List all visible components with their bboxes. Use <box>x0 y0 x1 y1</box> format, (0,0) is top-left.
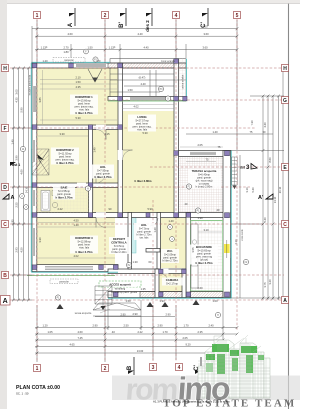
kitchen inner <box>195 222 197 240</box>
gridline H horizontal <box>10 67 284 69</box>
hol small wall <box>146 249 160 253</box>
camara right wall <box>182 269 186 298</box>
section markers <box>3 8 273 375</box>
svg-text:3.75: 3.75 <box>263 282 267 288</box>
svg-text:3.30: 3.30 <box>59 132 65 136</box>
svg-text:4.40: 4.40 <box>137 32 143 36</box>
living right wall <box>174 59 179 218</box>
svg-text:3.60: 3.60 <box>203 32 209 36</box>
svg-text:A: A <box>283 298 287 304</box>
svg-text:2.90: 2.90 <box>157 324 163 328</box>
svg-text:4.50: 4.50 <box>73 219 79 223</box>
gridline D horizontal <box>10 186 250 188</box>
svg-text:5.90: 5.90 <box>147 207 153 211</box>
svg-text:9.20: 9.20 <box>185 343 191 347</box>
svg-text:3: 3 <box>152 365 155 371</box>
gridline 4 vertical <box>175 19 177 361</box>
svg-text:1: 1 <box>36 366 39 372</box>
section B' top <box>119 8 126 28</box>
svg-text:terasa acoperita: terasa acoperita <box>75 312 92 315</box>
svg-text:1.40: 1.40 <box>212 130 218 134</box>
svg-text:5.30: 5.30 <box>75 116 81 120</box>
svg-text:5.90: 5.90 <box>20 107 24 113</box>
svg-text:5: 5 <box>236 13 239 19</box>
svg-text:3.30: 3.30 <box>38 237 42 243</box>
svg-text:1.70: 1.70 <box>183 324 189 328</box>
dorm1 bottom wall <box>32 125 122 130</box>
svg-text:1: 1 <box>36 13 39 19</box>
gridline E horizontal <box>150 166 284 168</box>
svg-text:DORMITOR 3: DORMITOR 3 <box>75 236 93 240</box>
kitchen left wall <box>186 213 191 298</box>
svg-text:1.20: 1.20 <box>42 324 48 328</box>
left A marker <box>3 194 15 201</box>
svg-text:1.20: 1.20 <box>153 227 157 233</box>
svg-text:F: F <box>3 126 6 132</box>
cyan shaft <box>132 215 137 253</box>
dorm1 inner dims <box>40 79 117 81</box>
svg-text:B': B' <box>119 22 125 28</box>
svg-text:PLAN COTA ±0.00: PLAN COTA ±0.00 <box>16 385 60 391</box>
svg-text:14.10: 14.10 <box>25 186 29 193</box>
svg-text:incalzire pardoseala: incalzire pardoseala <box>29 74 32 95</box>
room label white boxes <box>51 95 221 288</box>
svg-text:W.C.: W.C. <box>167 249 173 253</box>
svg-text:1.20: 1.20 <box>42 59 48 63</box>
svg-text:1.50: 1.50 <box>75 80 81 84</box>
svg-text:2.90: 2.90 <box>165 313 171 317</box>
svg-text:4.40: 4.40 <box>143 46 149 50</box>
parasolar labels <box>53 58 85 63</box>
doors <box>96 125 106 130</box>
svg-text:h liber 2.70m: h liber 2.70m <box>94 175 112 179</box>
bottom cyan <box>108 297 231 299</box>
cyan insulation edges <box>31 62 231 298</box>
svg-text:2.22: 2.22 <box>137 330 143 334</box>
svg-text:H: H <box>283 66 287 72</box>
svg-text:1.12P: 1.12P <box>109 46 116 50</box>
room fill DORMITOR 3 <box>37 217 115 265</box>
section A top <box>68 8 75 27</box>
left wall <box>32 63 37 272</box>
svg-text:4.60: 4.60 <box>20 169 24 175</box>
svg-text:.40: .40 <box>111 330 115 334</box>
svg-text:zona veranda: zona veranda <box>161 60 176 63</box>
svg-text:4: 4 <box>175 13 178 19</box>
roof overhang triangles bottom <box>57 300 200 309</box>
left wall window 4 dorm3 <box>32 228 36 256</box>
svg-text:tav. fals: tav. fals <box>140 236 149 240</box>
left wall window 1 <box>32 86 36 112</box>
gridline 1 vertical <box>36 19 38 362</box>
svg-text:CAMARA: CAMARA <box>166 278 178 282</box>
svg-text:4.65: 4.65 <box>69 343 75 347</box>
svg-text:A: A <box>3 298 8 305</box>
svg-text:13.00: 13.00 <box>137 349 144 353</box>
right dimension chains <box>231 68 284 300</box>
svg-text:3.20: 3.20 <box>268 279 272 285</box>
left dst marker <box>10 162 20 167</box>
svg-text:A: A <box>68 22 74 27</box>
svg-text:HOL: HOL <box>141 223 147 227</box>
svg-text:7.30: 7.30 <box>250 120 254 126</box>
entrance canopy bottom <box>93 303 141 316</box>
gridline F horizontal <box>10 127 255 129</box>
grid bubbles top <box>34 12 241 20</box>
svg-text:2.90: 2.90 <box>132 312 138 316</box>
svg-text:2.35: 2.35 <box>197 330 203 334</box>
dorm3 bottom wall <box>32 265 118 272</box>
wc wall <box>157 213 161 270</box>
right A' marker <box>258 194 273 201</box>
svg-text:A1.3 PLANUL Anexa 1 (Plan part: A1.3 PLANUL Anexa 1 (Plan parter) de la … <box>153 400 230 404</box>
svg-text:C: C <box>3 222 7 228</box>
svg-text:h liber 2.70m: h liber 2.70m <box>75 250 93 254</box>
dorm3 bottom cyan <box>31 271 118 273</box>
left cyan <box>30 63 32 272</box>
svg-text:3.85: 3.85 <box>38 97 42 103</box>
svg-text:2.90: 2.90 <box>92 324 98 328</box>
watermark band <box>112 376 300 401</box>
grid bubbles left <box>1 65 11 306</box>
dorm3 inner <box>38 222 115 224</box>
svg-text:(6.47): (6.47) <box>139 76 146 80</box>
svg-text:4.02: 4.02 <box>73 254 79 258</box>
svg-text:1.40: 1.40 <box>93 147 97 153</box>
svg-text:4.40: 4.40 <box>263 122 267 128</box>
room fill DORMITOR 1 <box>37 67 118 127</box>
gridlines group <box>10 19 284 362</box>
svg-text:4.60: 4.60 <box>77 330 83 334</box>
svg-text:1.93: 1.93 <box>159 299 165 303</box>
svg-text:S=4.43mp pard. gresie: S=4.43mp pard. gresie <box>111 290 138 294</box>
entrance steps bottom left <box>95 286 112 310</box>
interior dimension lines <box>37 59 273 298</box>
svg-text:3.10: 3.10 <box>245 187 249 193</box>
svg-text:5.40: 5.40 <box>263 217 267 223</box>
svg-text:1.30: 1.30 <box>132 260 138 264</box>
svg-text:2.22: 2.22 <box>57 207 63 211</box>
green highlight edges <box>27 101 223 291</box>
left scan margin <box>0 0 7 409</box>
svg-text:h liber 2.80m: h liber 2.80m <box>134 179 152 183</box>
svg-text:BAIE: BAIE <box>61 186 68 190</box>
svg-text:2.70: 2.70 <box>63 46 69 50</box>
dorm right wall <box>89 125 93 218</box>
living inner dims <box>122 104 174 106</box>
svg-text:14.10: 14.10 <box>273 196 277 203</box>
gridline 3 vertical <box>152 200 154 361</box>
svg-text:3.60: 3.60 <box>202 46 208 50</box>
svg-text:+tav. fals: +tav. fals <box>79 246 90 250</box>
section 2 top <box>145 8 152 32</box>
svg-text:2.50: 2.50 <box>123 324 129 328</box>
svg-text:h liber 2.40m: h liber 2.40m <box>112 250 127 254</box>
upper terrace inner dims <box>110 73 174 75</box>
top wall window dorm1 <box>76 64 106 68</box>
room fill LIVING <box>122 111 174 213</box>
svg-text:1.15: 1.15 <box>104 132 110 136</box>
svg-text:parasolar: parasolar <box>59 281 69 284</box>
svg-text:des 2: des 2 <box>145 20 150 32</box>
svg-text:C': C' <box>201 22 207 28</box>
bottom wall <box>108 292 231 298</box>
romimo watermark text <box>125 371 232 407</box>
walls <box>32 59 231 298</box>
upper terrace outline <box>110 59 186 97</box>
svg-text:8.60: 8.60 <box>268 157 272 163</box>
svg-text:H: H <box>3 66 7 72</box>
svg-text:SC. 1 : 50: SC. 1 : 50 <box>16 392 29 396</box>
kitchen/terrace right wall <box>223 151 231 298</box>
svg-text:DORMITOR 1: DORMITOR 1 <box>75 95 93 99</box>
svg-text:4.40: 4.40 <box>140 82 146 86</box>
svg-text:1.50: 1.50 <box>127 88 133 92</box>
svg-text:1.70: 1.70 <box>162 330 168 334</box>
svg-text:2.05: 2.05 <box>197 143 203 147</box>
svg-text:S=2.17mp: S=2.17mp <box>166 282 178 286</box>
svg-text:1.40: 1.40 <box>73 223 79 227</box>
svg-text:1.05: 1.05 <box>47 330 53 334</box>
svg-text:1.40: 1.40 <box>11 139 15 145</box>
svg-text:h liber 2.70m: h liber 2.70m <box>56 161 74 165</box>
living top wall <box>108 97 186 101</box>
svg-text:1.00: 1.00 <box>212 299 218 303</box>
room fill BAIE <box>37 188 89 213</box>
living top windows <box>130 97 170 100</box>
gridline G horizontal <box>108 99 284 101</box>
svg-text:HOL: HOL <box>100 165 106 169</box>
svg-text:2: 2 <box>104 366 107 372</box>
svg-text:1.12P: 1.12P <box>41 46 48 50</box>
svg-text:parasolar: parasolar <box>64 59 74 62</box>
svg-text:+tav. fals: +tav. fals <box>137 128 148 132</box>
terrace top wall <box>174 151 231 157</box>
svg-text:3.55: 3.55 <box>191 247 195 253</box>
svg-text:3.05: 3.05 <box>15 89 19 95</box>
svg-text:5.30: 5.30 <box>142 131 148 135</box>
top cyan <box>31 61 110 63</box>
terrace top window <box>190 151 216 156</box>
top wall band <box>32 63 186 68</box>
room fills <box>37 67 186 292</box>
svg-text:5.40: 5.40 <box>251 187 255 193</box>
section B bottom <box>127 357 134 375</box>
svg-text:2: 2 <box>104 13 107 19</box>
camara left wall <box>155 269 159 298</box>
bucatarie tiles <box>190 220 223 291</box>
svg-text:4.60: 4.60 <box>67 32 73 36</box>
svg-text:4.02: 4.02 <box>133 105 139 109</box>
svg-text:CENTRALA: CENTRALA <box>111 241 126 245</box>
svg-text:2.10: 2.10 <box>75 76 81 80</box>
dorm2/baie wall <box>32 183 122 188</box>
svg-text:7.45: 7.45 <box>77 336 83 340</box>
stairs <box>32 149 49 175</box>
grid bubbles bottom <box>34 364 183 373</box>
svg-text:carton asfaltat: carton asfaltat <box>182 74 185 89</box>
room fill DORMITOR 2 <box>37 130 89 183</box>
kitchen right window <box>224 240 231 258</box>
svg-text:1.50: 1.50 <box>125 299 131 303</box>
room labels <box>50 58 244 295</box>
green buildings logo <box>198 335 270 398</box>
svg-text:3.90: 3.90 <box>15 155 19 161</box>
svg-text:2.40: 2.40 <box>208 324 214 328</box>
svg-text:2.05: 2.05 <box>182 336 188 340</box>
gridline C horizontal <box>10 223 284 225</box>
svg-text:1.50: 1.50 <box>87 46 93 50</box>
terasa acoperita hatch <box>178 157 223 215</box>
svg-text:dst 1: dst 1 <box>12 163 20 167</box>
depozit right wall <box>128 213 132 270</box>
svg-text:h liber 2.70m: h liber 2.70m <box>195 261 213 265</box>
svg-text:A: A <box>11 195 15 201</box>
exterior steps right of terrace <box>232 157 237 189</box>
svg-text:2.93: 2.93 <box>15 247 19 253</box>
living bottom wall <box>32 213 231 218</box>
top dimension chains <box>32 20 237 150</box>
svg-text:1.35: 1.35 <box>140 287 146 291</box>
svg-text:1.40: 1.40 <box>168 219 174 223</box>
baie fixtures <box>41 191 50 212</box>
svg-text:4.50: 4.50 <box>20 247 24 253</box>
svg-text:h liber 2.70m: h liber 2.70m <box>163 259 178 263</box>
svg-text:4.35: 4.35 <box>75 85 81 89</box>
terrace inner <box>180 146 223 148</box>
bottom dimension chains <box>35 300 237 362</box>
svg-text:zona verde: zona verde <box>241 229 244 241</box>
svg-text:20.10: 20.10 <box>278 186 282 193</box>
svg-text:DORMITOR 2: DORMITOR 2 <box>56 148 74 152</box>
left wall window 2 <box>32 140 36 162</box>
svg-text:BUCATARIE: BUCATARIE <box>196 245 212 249</box>
svg-text:3.30: 3.30 <box>38 157 42 163</box>
svg-text:D: D <box>3 185 7 191</box>
windows <box>32 64 230 271</box>
right cyan <box>230 151 232 299</box>
hol right / living left wall <box>118 63 123 218</box>
svg-text:ACCES acoperit: ACCES acoperit <box>109 283 131 287</box>
svg-text:h liber 2.70m: h liber 2.70m <box>55 196 73 200</box>
circle markers <box>20 57 248 318</box>
upper right dims <box>186 59 188 100</box>
room fill hol2 <box>160 218 186 268</box>
svg-text:h (max) 2.80m: h (max) 2.80m <box>196 185 213 189</box>
wc fixture <box>168 225 173 230</box>
kitchen counter <box>191 224 198 288</box>
svg-text:LIVING: LIVING <box>137 115 146 119</box>
svg-text:2.60: 2.60 <box>197 286 203 290</box>
svg-text:1.80: 1.80 <box>63 50 69 54</box>
room fill CAMARA <box>159 273 182 292</box>
dorm3 bottom window <box>45 265 93 271</box>
svg-text:windfang: windfang <box>115 287 126 291</box>
hol inner <box>92 145 94 210</box>
room fill HOL vertical <box>92 130 119 213</box>
svg-text:2.55: 2.55 <box>15 202 19 208</box>
dorm2 inner <box>38 135 88 137</box>
dimension tick marks <box>12 27 284 354</box>
left wall window 3 <box>32 190 36 206</box>
svg-text:G: G <box>283 98 287 104</box>
svg-text:B: B <box>127 365 133 370</box>
grid bubbles right <box>240 65 289 305</box>
svg-text:4.35: 4.35 <box>15 97 19 103</box>
svg-text:C: C <box>283 222 287 228</box>
svg-text:2.10: 2.10 <box>234 239 238 245</box>
gridline B horizontal <box>10 274 284 276</box>
left dimension chains <box>11 68 33 300</box>
gridline A horizontal <box>10 299 284 301</box>
svg-text:TERASA acoperita: TERASA acoperita <box>192 169 217 173</box>
section C' bottom <box>194 357 201 375</box>
camara top wall <box>108 269 190 274</box>
svg-text:B: B <box>3 273 7 279</box>
interior dimension texts scattered <box>38 59 221 303</box>
svg-text:3.10: 3.10 <box>203 228 209 232</box>
gridline 5 vertical <box>236 19 238 330</box>
svg-text:h liber 2.70m: h liber 2.70m <box>75 111 93 115</box>
svg-text:1.98: 1.98 <box>197 216 203 220</box>
columns <box>32 59 229 297</box>
svg-text:A': A' <box>258 195 264 201</box>
section C' top <box>201 8 208 28</box>
frame right border <box>288 3 290 409</box>
gridline 2 vertical <box>104 19 106 362</box>
